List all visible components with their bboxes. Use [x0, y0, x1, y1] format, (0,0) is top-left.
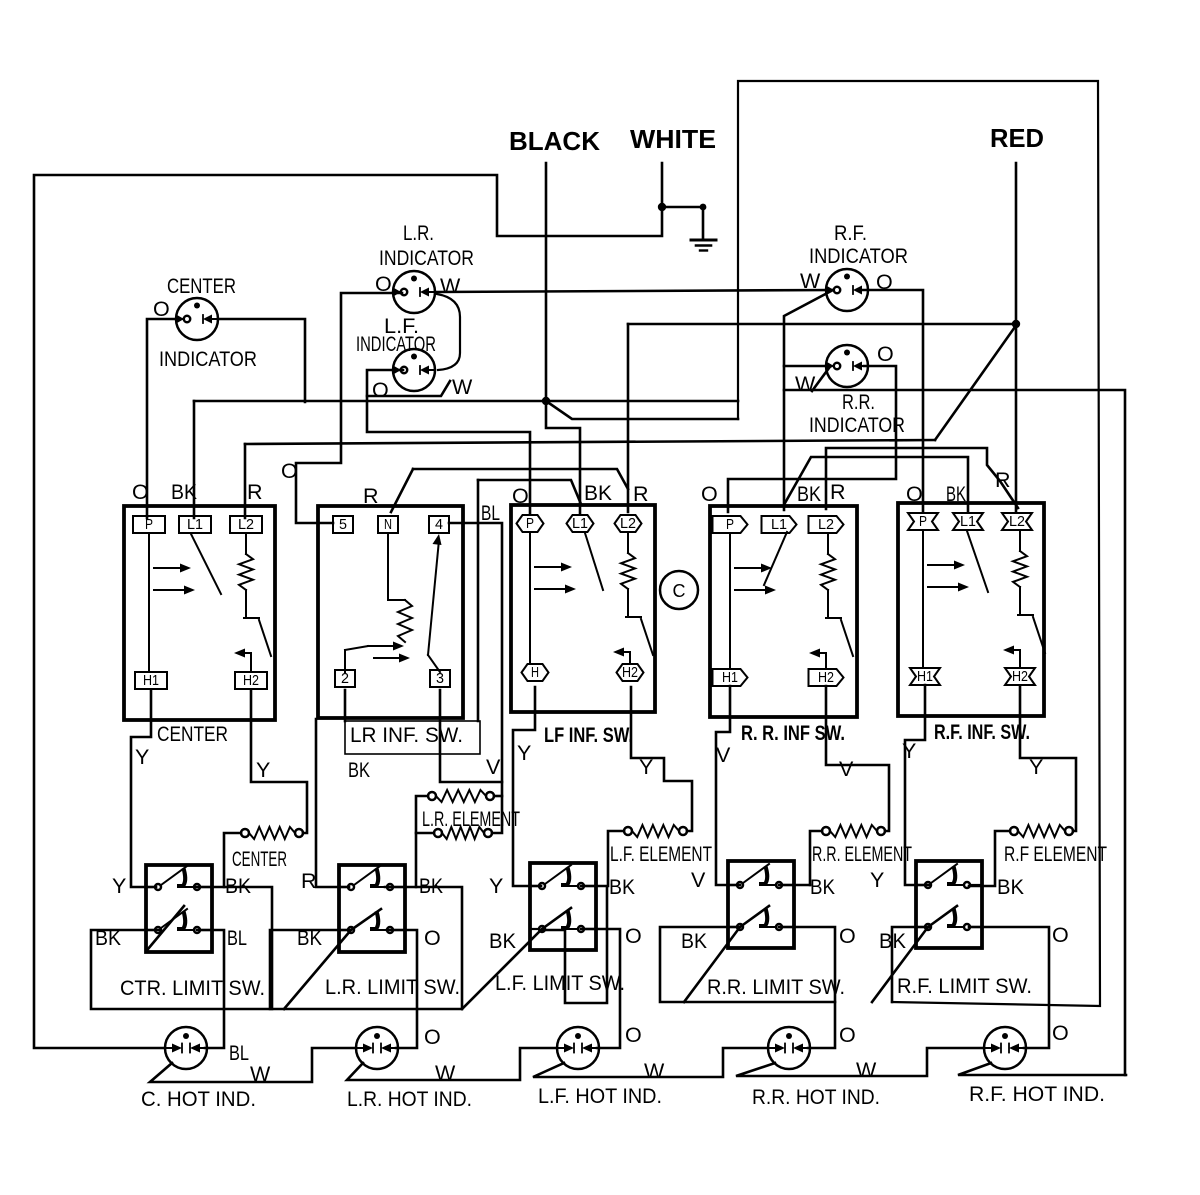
wire RED drop to L2 of RF switch [1015, 163, 1018, 512]
wire R riser to LR limit [316, 719, 349, 887]
wire L1 RR to L1 RF tie [785, 457, 968, 512]
svg-text:Y: Y [517, 741, 531, 765]
svg-text:R.F. LIMIT SW.: R.F. LIMIT SW. [897, 974, 1032, 998]
svg-text:BL: BL [229, 1041, 249, 1065]
wire 4 BL riser [449, 523, 502, 833]
wire RR HOT tail W [736, 1048, 984, 1076]
wire RF right pin to P of RF switch [861, 290, 923, 512]
svg-text:BK: BK [297, 926, 323, 950]
wire big box outline [738, 81, 1100, 1006]
internals RR INF switch [730, 532, 853, 669]
svg-text:BK: BK [997, 875, 1025, 899]
svg-text:O: O [512, 484, 529, 508]
switch box LR INF [318, 506, 463, 718]
wire 3 to BL junction [440, 690, 502, 782]
wire LR ind left pin to 5 [296, 293, 402, 523]
wire N to L2 tie [413, 469, 628, 489]
svg-text:BK: BK [797, 482, 822, 506]
wire bus y401 [194, 400, 738, 403]
svg-text:O: O [1052, 923, 1069, 947]
svg-text:R: R [633, 482, 649, 506]
svg-text:Y: Y [870, 868, 884, 892]
svg-text:R: R [301, 869, 317, 893]
wire LF ind left pin to P of LF switch [367, 370, 530, 513]
wire N leader diagonal [391, 469, 413, 512]
resistor L.R. ELEMENT bottom [434, 827, 492, 839]
svg-text:CENTER: CENTER [232, 847, 287, 871]
svg-text:BK: BK [681, 929, 708, 953]
svg-text:BK: BK [810, 875, 836, 899]
svg-text:O: O [424, 926, 441, 950]
indicator lamp L.F. [393, 349, 435, 391]
svg-text:Y: Y [639, 755, 653, 779]
wire LF W leader [367, 381, 450, 396]
svg-text:BK: BK [609, 875, 636, 899]
svg-text:H1: H1 [143, 673, 159, 689]
wire BK branch to label box [477, 480, 480, 721]
svg-text:H2: H2 [818, 670, 834, 686]
wire H1 RR to RR limit [716, 686, 740, 885]
svg-text:4: 4 [435, 517, 443, 533]
wire riser y443 to L2 CENTER [244, 444, 247, 518]
svg-text:L1: L1 [572, 516, 588, 532]
wire diagonal y443 to red node [935, 324, 1017, 440]
wire CENTER element left [224, 833, 241, 887]
wire diag CTR to LR limit [284, 909, 381, 1009]
svg-text:BL: BL [227, 926, 247, 950]
svg-text:INDICATOR: INDICATOR [379, 246, 474, 270]
wire H1 CENTER to CTR limit [131, 690, 156, 887]
svg-text:O: O [372, 378, 389, 402]
hot indicator C [165, 1027, 207, 1069]
svg-text:L2: L2 [1009, 514, 1025, 530]
svg-text:W: W [250, 1062, 271, 1086]
svg-text:BK: BK [946, 482, 966, 506]
wire CENTER ind left pin to P [147, 319, 176, 518]
svg-text:O: O [153, 297, 170, 321]
switch box RF INF [898, 503, 1044, 716]
wire RR top switch out [779, 884, 810, 887]
resistor L.R. ELEMENT top [428, 790, 494, 802]
resistor R.R. ELEMENT [822, 825, 885, 837]
limit switch LF [530, 863, 596, 950]
svg-text:O: O [625, 1023, 642, 1047]
svg-text:L1: L1 [187, 517, 203, 533]
svg-text:P: P [145, 517, 153, 533]
svg-text:L.R. LIMIT SW.: L.R. LIMIT SW. [325, 975, 460, 999]
indicator lamp R.F. [826, 269, 868, 311]
svg-text:LR INF. SW.: LR INF. SW. [350, 723, 463, 747]
svg-text:CENTER: CENTER [157, 722, 228, 746]
wire bus y324 red [628, 323, 1016, 326]
svg-text:P: P [526, 516, 534, 532]
svg-text:C: C [673, 581, 686, 601]
wire diag to RR limit blade [684, 906, 769, 1002]
hot indicator R.F. [984, 1027, 1026, 1069]
svg-text:H2: H2 [622, 665, 638, 681]
svg-text:R.F. HOT IND.: R.F. HOT IND. [969, 1082, 1105, 1106]
limit switch CTR [146, 865, 212, 952]
internals LR INF switch [345, 533, 442, 672]
svg-text:O: O [877, 342, 894, 366]
wire riser red to L2 of LF switch [627, 324, 630, 512]
wire O riser to RR HOT [779, 927, 835, 1048]
svg-text:3: 3 [436, 671, 444, 687]
svg-text:BLACK: BLACK [509, 126, 600, 156]
wire diag LR to LF limit [462, 908, 571, 1009]
wire CTR bottom blade [148, 906, 184, 949]
svg-text:Y: Y [489, 874, 503, 898]
svg-text:W: W [440, 274, 461, 298]
wire ground branch [662, 207, 703, 240]
svg-text:L.R. HOT IND.: L.R. HOT IND. [347, 1087, 472, 1111]
svg-text:BK: BK [95, 926, 122, 950]
wire riser to L1 of CENTER switch [193, 401, 196, 518]
wire LF element left [608, 831, 624, 886]
resistor CENTER element [241, 827, 303, 839]
svg-text:H: H [531, 665, 539, 681]
internals CENTER switch [149, 533, 271, 672]
svg-text:V: V [486, 755, 501, 779]
svg-text:L2: L2 [620, 516, 636, 532]
wire RR limit loop [660, 927, 835, 1002]
svg-text:L.F. LIMIT SW.: L.F. LIMIT SW. [495, 971, 625, 995]
svg-text:R.R. LIMIT SW.: R.R. LIMIT SW. [707, 975, 845, 999]
wire LF HOT tail W [533, 1048, 768, 1077]
svg-text:Y: Y [902, 739, 916, 763]
svg-text:L.R.: L.R. [403, 221, 434, 245]
node white junction [658, 203, 666, 211]
wire H2 of LF to element [631, 687, 692, 831]
svg-text:W: W [452, 375, 473, 399]
wire O riser to LR HOT [387, 930, 417, 1048]
node red junction [1012, 320, 1020, 328]
wire H2 RR to element [826, 686, 889, 831]
svg-text:O: O [132, 480, 149, 504]
wire to RR ind left pin [784, 365, 828, 368]
svg-text:W: W [644, 1059, 665, 1083]
svg-text:C. HOT IND.: C. HOT IND. [141, 1087, 256, 1111]
wire C HOT tail W [150, 1048, 356, 1082]
internals RF INF switch [923, 530, 1045, 668]
switch box RR INF [710, 506, 857, 717]
hot indicator L.F. [557, 1027, 599, 1069]
svg-text:O: O [375, 272, 392, 296]
wire W net LR to RF [436, 290, 833, 292]
svg-text:R: R [363, 484, 379, 508]
svg-text:Y: Y [112, 874, 126, 898]
svg-text:L.F. HOT IND.: L.F. HOT IND. [538, 1084, 662, 1108]
wire bus y443 [245, 440, 935, 444]
svg-text:R.F ELEMENT: R.F ELEMENT [1004, 842, 1107, 866]
svg-text:BK: BK [584, 481, 613, 505]
svg-text:H1: H1 [917, 669, 933, 685]
svg-text:W: W [856, 1058, 877, 1082]
svg-text:O: O [839, 1023, 856, 1047]
svg-text:INDICATOR: INDICATOR [809, 244, 908, 268]
svg-text:W: W [800, 269, 821, 293]
wire RF HOT tail W [958, 1063, 1126, 1075]
wire LF limit loop [543, 886, 607, 1003]
svg-text:W: W [795, 372, 816, 396]
switch box LF INF [511, 505, 655, 712]
svg-text:O: O [424, 1025, 441, 1049]
resistor R.F ELEMENT [1010, 825, 1073, 837]
indicator lamp R.R. [826, 345, 868, 387]
svg-text:INDICATOR: INDICATOR [356, 332, 436, 356]
svg-text:L.R. ELEMENT: L.R. ELEMENT [422, 807, 520, 831]
svg-text:R: R [995, 468, 1011, 492]
svg-text:O: O [839, 924, 856, 948]
wire RF limit loop [892, 927, 930, 1002]
svg-text:BK: BK [419, 874, 444, 898]
internals LF INF switch [530, 532, 653, 664]
wire 2 of LR down [344, 690, 347, 721]
svg-text:H1: H1 [722, 670, 738, 686]
svg-text:WHITE: WHITE [630, 124, 716, 154]
svg-text:O: O [625, 924, 642, 948]
svg-text:INDICATOR: INDICATOR [809, 413, 905, 437]
wire WHITE net to left border and C HOT IND [34, 163, 662, 1048]
wire BLACK to L1 of LF switch [546, 401, 580, 513]
svg-text:P: P [726, 517, 734, 533]
svg-text:RED: RED [990, 123, 1044, 153]
svg-text:O: O [1052, 1021, 1069, 1045]
wire O riser to RF HOT [969, 927, 1049, 1048]
wire L2 RR to L2 RF red tie [826, 448, 1018, 509]
limit switch RR [728, 861, 794, 948]
indicator lamp CENTER [176, 298, 218, 340]
wire BL riser to C HOT [197, 930, 224, 1048]
node ground corner [700, 204, 707, 211]
wire BLACK drop [545, 163, 548, 401]
svg-text:BK: BK [225, 874, 252, 898]
svg-text:H2: H2 [1012, 669, 1028, 685]
label box around LR INF SW [345, 721, 480, 754]
wire LR HOT tail W [347, 1048, 557, 1080]
svg-text:BK: BK [879, 929, 907, 953]
wire H1 RF to RF limit [905, 685, 930, 885]
svg-text:V: V [691, 868, 706, 892]
wire RF left pin diagonal [784, 290, 833, 510]
wire W rail right [784, 390, 1125, 1075]
svg-text:R: R [247, 480, 263, 504]
wire H2 CENTER to element [251, 690, 307, 833]
svg-text:V: V [716, 743, 731, 767]
svg-text:O: O [876, 270, 893, 294]
ground [691, 240, 716, 251]
wire CTR limit loop [91, 887, 272, 1009]
svg-text:L.F. ELEMENT: L.F. ELEMENT [610, 842, 712, 866]
wire BK diag to L1 LF [478, 480, 581, 504]
svg-text:W: W [435, 1061, 456, 1085]
wire W leader RR [812, 368, 829, 391]
hot indicator L.R. [356, 1027, 398, 1069]
svg-text:L1: L1 [771, 517, 787, 533]
svg-text:L2: L2 [818, 517, 834, 533]
svg-text:BK: BK [489, 929, 517, 953]
svg-text:R.R. ELEMENT: R.R. ELEMENT [812, 842, 912, 866]
svg-text:L2: L2 [238, 517, 254, 533]
wire LR element left [416, 796, 428, 887]
resistor L.F. ELEMENT [624, 825, 687, 837]
wire RR right pin to P of RR switch [728, 366, 896, 512]
svg-text:O: O [701, 482, 718, 506]
svg-text:BK: BK [348, 758, 371, 782]
svg-text:5: 5 [339, 517, 347, 533]
wire H of LF to LF limit [513, 687, 541, 886]
svg-text:V: V [839, 757, 854, 781]
svg-text:L1: L1 [960, 514, 976, 530]
svg-text:R.F. INF. SW.: R.F. INF. SW. [934, 720, 1030, 744]
svg-text:O: O [281, 459, 298, 483]
svg-text:H2: H2 [243, 673, 259, 689]
svg-text:BK: BK [171, 480, 198, 504]
svg-text:O: O [906, 482, 923, 506]
svg-text:INDICATOR: INDICATOR [159, 347, 257, 371]
wire BLACK diagonal to big box [546, 401, 738, 419]
svg-text:LF INF. SW.: LF INF. SW. [544, 723, 633, 747]
svg-text:P: P [919, 514, 927, 530]
svg-text:BL: BL [481, 501, 500, 525]
hot indicator R.R. [768, 1027, 810, 1069]
indicator lamp L.R. [393, 271, 435, 313]
wire diag to RF limit blade [872, 906, 957, 1002]
svg-text:R.R. HOT IND.: R.R. HOT IND. [752, 1085, 880, 1109]
svg-text:Y: Y [135, 745, 149, 769]
node black junction [542, 397, 550, 405]
wire LR limit loop [270, 887, 462, 1009]
svg-text:R: R [830, 480, 846, 504]
wire CENTER ind right pin [218, 319, 305, 402]
limit switch LR [339, 865, 405, 952]
wire LR element right top stub [494, 795, 502, 798]
svg-text:CTR. LIMIT SW.: CTR. LIMIT SW. [120, 976, 265, 1000]
switch box CENTER [124, 506, 275, 720]
wire RF element left [969, 831, 1010, 886]
wire O riser to LF HOT [581, 929, 620, 1048]
svg-text:R.F.: R.F. [834, 221, 867, 245]
wire LR element left bottom stub [416, 832, 434, 835]
svg-text:N: N [384, 517, 392, 533]
svg-text:2: 2 [341, 671, 349, 687]
svg-text:Y: Y [256, 758, 270, 782]
node C [660, 571, 698, 609]
limit switch RF [916, 861, 982, 948]
wire S-curve LR to LF right pins [437, 294, 460, 370]
svg-text:R.R.: R.R. [842, 390, 875, 414]
svg-text:Y: Y [1029, 755, 1043, 779]
svg-text:R. R. INF SW.: R. R. INF SW. [741, 721, 845, 745]
wire H2 RF to element [1020, 686, 1076, 831]
svg-text:CENTER: CENTER [167, 274, 236, 298]
wire RR element left [810, 831, 822, 885]
